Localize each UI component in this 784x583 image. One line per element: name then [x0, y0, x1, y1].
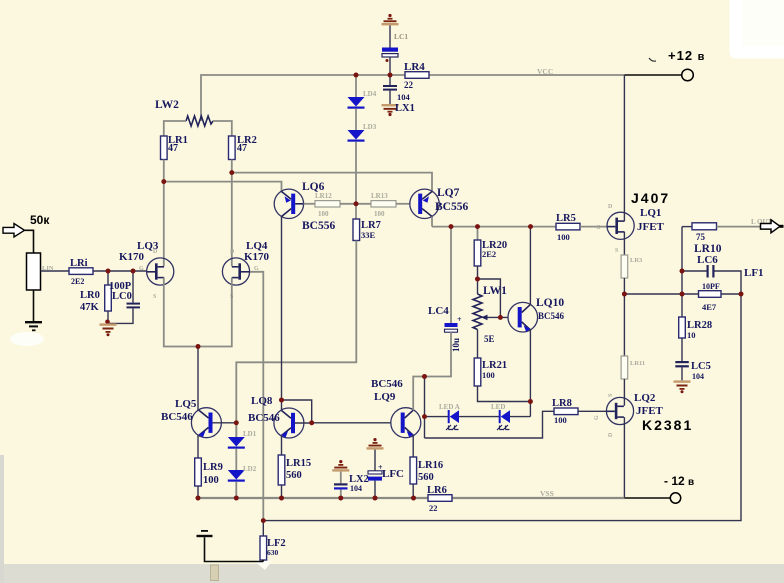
svg-text:LR8: LR8 [552, 398, 572, 409]
svg-text:LD3: LD3 [363, 123, 377, 131]
mid rail wire [432, 226, 556, 228]
node VSS LR9 [196, 496, 201, 501]
svg-text:75: 75 [696, 232, 706, 242]
svg-text:LR5: LR5 [556, 213, 576, 224]
wire VCC rail [201, 75, 405, 121]
svg-text:LR10: LR10 [694, 243, 722, 255]
svg-text:LR12: LR12 [315, 192, 332, 200]
wire pot to ground [33, 290, 35, 321]
svg-text:100: 100 [554, 415, 567, 425]
transistor LQ5 BC546 [191, 408, 221, 438]
potentiometer LW2 [186, 116, 213, 126]
svg-text:J407: J407 [631, 190, 670, 206]
svg-text:100: 100 [318, 210, 329, 218]
diode LD2 [235, 449, 237, 470]
transistor LQ9 BC546 [391, 408, 421, 438]
capacitor LC4 [450, 227, 452, 323]
svg-text:LR0: LR0 [80, 290, 100, 301]
svg-text:560: 560 [418, 472, 434, 483]
node at LR1 bottom branch [161, 179, 166, 184]
wire to LQ6 emitter [164, 182, 282, 192]
svg-text:+12 в: +12 в [668, 48, 705, 63]
node LQ10 collector tap [528, 224, 533, 229]
svg-text:33E: 33E [361, 230, 376, 240]
wire LR8 to LQ2 gate [578, 410, 607, 412]
resistor LR28 [681, 294, 683, 317]
terminal +12 [682, 69, 694, 81]
svg-text:VCC: VCC [537, 67, 553, 76]
svg-text:LR9: LR9 [203, 462, 223, 473]
JFET LQ4 K170 [222, 258, 249, 285]
node 682/294 [680, 292, 685, 297]
resistor LR5 [556, 223, 580, 230]
node feedback right [739, 292, 744, 297]
resistor LR11 [621, 356, 628, 379]
svg-text:LQ8: LQ8 [251, 395, 273, 407]
node LQ8 collector [279, 398, 284, 403]
capacitor LC5 [675, 361, 689, 363]
node LC0 tap [131, 269, 136, 274]
svg-text:LR13: LR13 [371, 192, 388, 200]
resistor LR6 [428, 495, 452, 502]
terminal -12 [670, 493, 680, 503]
wire LR3 to LR11 [623, 278, 625, 356]
svg-text:BC546: BC546 [161, 411, 193, 423]
svg-text:+: + [457, 315, 462, 324]
svg-text:104: 104 [692, 372, 704, 381]
wire LR2 down to LQ4 drain [231, 160, 233, 267]
resistor LRi [69, 268, 93, 275]
resistor LR3 [621, 255, 628, 278]
svg-text:LC6: LC6 [697, 254, 718, 266]
wire LED to emitter node [510, 416, 530, 418]
wire LR21 bottom to emitter node [478, 386, 531, 402]
white patch near input ground [10, 332, 44, 346]
LED A [448, 410, 450, 423]
wiper arrow LW1 [484, 316, 508, 318]
node VSS LR16 [411, 496, 416, 501]
capacitor LX2 with ground above [339, 460, 342, 463]
node VSS LD2 [234, 496, 239, 501]
svg-text:2E2: 2E2 [71, 277, 84, 286]
svg-text:LR11: LR11 [630, 360, 645, 367]
resistor LR2 [229, 136, 236, 160]
capacitor LC1 [382, 48, 398, 52]
svg-text:LR6: LR6 [427, 485, 447, 496]
VSS rail [197, 497, 428, 499]
wire 682 vertical to LR10 [681, 227, 683, 294]
svg-text:D: D [153, 249, 158, 255]
svg-text:LR4: LR4 [404, 61, 425, 73]
svg-text:100: 100 [557, 232, 570, 242]
node LC6 left [680, 269, 685, 274]
LED B [499, 410, 501, 423]
resistor LR20 [477, 227, 479, 240]
wire LQ5 emitter to LR9 [197, 435, 199, 458]
capacitor LX1 [389, 75, 391, 85]
svg-text:K170: K170 [244, 251, 270, 263]
diode LD1 [235, 423, 237, 437]
wire wiper to top [478, 279, 501, 317]
svg-text:JFET: JFET [636, 405, 664, 417]
svg-text:104: 104 [397, 92, 411, 102]
svg-text:LR16: LR16 [418, 460, 443, 471]
ground LC5 [674, 380, 691, 382]
wire output source node [624, 293, 682, 295]
wire LRi to LQ3 gate [93, 270, 147, 272]
node emitter/LR21 [528, 399, 533, 404]
node LQ8 base [309, 420, 314, 425]
svg-text:D: D [230, 249, 235, 255]
capacitor LFC with ground above [373, 438, 376, 441]
wire collector-base tie LQ8 [282, 400, 312, 423]
svg-text:10u: 10u [451, 338, 461, 352]
wire -12 terminal lead [624, 497, 670, 499]
svg-text:D: D [608, 204, 613, 210]
wire to LQ7 emitter [232, 173, 432, 192]
wire ground to LC1 [389, 25, 391, 47]
svg-text:LQ1: LQ1 [640, 207, 661, 219]
svg-text:2E2: 2E2 [482, 249, 496, 259]
svg-text:47: 47 [237, 143, 247, 154]
inductor/resistor LF1 4E7 [699, 291, 722, 298]
resistor LR9 [195, 458, 202, 486]
svg-text:LRi: LRi [70, 258, 88, 269]
wire between LEDs [459, 416, 500, 418]
node LC4 tap [449, 224, 454, 229]
svg-text:LQ9: LQ9 [374, 391, 396, 403]
svg-text:LFC: LFC [382, 468, 404, 480]
node VSS LFC [373, 496, 378, 501]
resistor LR12 [304, 203, 315, 205]
svg-text:LR15: LR15 [286, 458, 311, 469]
resistor LR8 [554, 408, 578, 415]
wire source loop to LQ5 collector [197, 347, 199, 411]
ground LR0/LC0 [105, 320, 110, 325]
node VSS LR15 [279, 496, 284, 501]
svg-text:LW2: LW2 [155, 99, 179, 111]
svg-text:100: 100 [203, 475, 219, 486]
wire bias node to LR8 [425, 411, 555, 438]
svg-text:LD2: LD2 [243, 465, 257, 473]
ground above LC1 [388, 14, 391, 17]
resistor LF2 [262, 521, 264, 536]
svg-text:LF1: LF1 [744, 267, 764, 279]
white patch top-right [741, 0, 784, 48]
capacitor LC6 [682, 270, 707, 272]
svg-text:VSS: VSS [540, 489, 554, 498]
wire LQ7 collector to mid rail [431, 217, 433, 227]
JFET LQ2 K2381 [606, 397, 633, 424]
svg-text:LC0: LC0 [112, 291, 132, 302]
ground LF2 [201, 530, 208, 532]
resistor LR1 [161, 136, 168, 160]
wire LQ1 drain to VCC [623, 75, 625, 221]
svg-text:K170: K170 [119, 251, 145, 263]
svg-text:BC546: BC546 [538, 311, 565, 321]
transistor LQ7 BC556 [410, 189, 439, 218]
resistor LR4 [405, 72, 429, 79]
wire bottom feedback run [263, 294, 741, 521]
wire LQ6 collector down to LQ8 [281, 217, 283, 411]
wire LC1 to rail [389, 57, 391, 75]
svg-text:LED A: LED A [439, 403, 460, 411]
svg-text:D: D [608, 432, 614, 437]
ground below LX1 [382, 104, 399, 106]
left gray edge strip [0, 455, 4, 583]
svg-text:G: G [139, 266, 144, 272]
wire LD3 to mid node [355, 142, 357, 204]
wire LQ2 drain down to VSS [623, 417, 625, 498]
wire corner to LR10 [682, 226, 692, 228]
svg-text:50к: 50к [30, 213, 50, 227]
svg-text:4E7: 4E7 [702, 302, 717, 312]
svg-text:5E: 5E [484, 334, 495, 344]
svg-text:BC546: BC546 [248, 412, 280, 424]
svg-text:LQ2: LQ2 [634, 392, 656, 404]
tan scrollbar element bottom [211, 565, 219, 581]
node VSS LX2 [338, 496, 343, 501]
svg-text:JFET: JFET [637, 221, 665, 233]
svg-text:22: 22 [404, 80, 414, 90]
diode LD3 [355, 109, 357, 130]
white patch below LF2 [254, 561, 272, 570]
svg-text:G: G [596, 225, 601, 231]
svg-text:BC556: BC556 [435, 201, 468, 213]
node feedback tap [622, 292, 627, 297]
potentiometer LW1 [473, 294, 482, 330]
svg-text:LC1: LC1 [394, 32, 408, 41]
svg-text:100: 100 [374, 210, 385, 218]
wire +12 terminal lead [624, 74, 682, 76]
resistor LR7 [355, 204, 357, 219]
wire bias vertical [424, 377, 426, 439]
svg-text:LED: LED [491, 403, 505, 411]
svg-text:LD4: LD4 [363, 90, 377, 98]
node LR20 tap [475, 224, 480, 229]
svg-text:47K: 47K [80, 302, 100, 313]
wire LQ8 base to LQ9 base [312, 422, 391, 424]
transistor LQ10 BC546 [508, 302, 538, 332]
transistor LQ6 BC556 [274, 189, 303, 218]
JFET LQ3 K170 [147, 258, 174, 285]
wire LR1 down to LQ3 drain [163, 160, 165, 267]
resistor LR21 [474, 358, 481, 386]
svg-text:LX1: LX1 [395, 103, 415, 114]
wire LQ9 collector up to bias node [413, 377, 424, 411]
resistor LR13 [371, 201, 396, 207]
svg-text:560: 560 [286, 470, 302, 481]
node LR0 tap [106, 269, 111, 274]
wire LW2 to LR1/LR2 [164, 121, 186, 136]
svg-text:10PF: 10PF [702, 282, 720, 291]
wire LQ1 source down [623, 232, 625, 255]
svg-text:G: G [594, 415, 600, 420]
svg-text:LW1: LW1 [483, 285, 507, 297]
resistor LR15 [278, 455, 285, 485]
wire pot wiper to LRi [41, 270, 70, 272]
resistor LR16 [410, 457, 417, 484]
node wiper link [475, 277, 480, 282]
diode LD4 [355, 75, 357, 97]
wire LQ3 source loop [164, 278, 232, 347]
wire LQ10 collector up [529, 227, 531, 305]
svg-text:BC546: BC546 [371, 378, 403, 390]
svg-text:LD1: LD1 [243, 430, 257, 438]
svg-text:47: 47 [168, 143, 178, 154]
wire LR5 to LQ1 gate [580, 226, 607, 228]
wire input to pot [25, 230, 34, 253]
node VCC/LD4 [354, 73, 359, 78]
junction dots top layer [106, 73, 744, 523]
wire LR7 down to diode chain [236, 241, 356, 438]
svg-text:LQ7: LQ7 [437, 187, 460, 199]
svg-text:K2381: K2381 [642, 417, 693, 433]
svg-text:LQ5: LQ5 [175, 398, 197, 410]
wire LR11 to LQ2 [623, 379, 625, 406]
node source loop [196, 344, 201, 349]
bottom gray band [0, 564, 784, 583]
node at LR2 bottom branch [229, 170, 234, 175]
node bias top [422, 374, 427, 379]
node VCC/LC1 [388, 73, 393, 78]
wire LQ9 emitter to LR16 [412, 435, 414, 457]
wire LED row [425, 416, 450, 418]
svg-text:BC556: BC556 [302, 220, 335, 232]
JFET LQ1 J407 [607, 212, 634, 239]
ground input pot [25, 321, 42, 323]
node feedback bottom [261, 518, 266, 523]
node LED anode [422, 414, 427, 419]
svg-text:104: 104 [350, 484, 362, 493]
input port arrow [3, 224, 25, 238]
svg-text:LC4: LC4 [428, 305, 449, 317]
node LQ5 base / diode chain [234, 420, 239, 425]
svg-text:- 12 в: - 12 в [664, 474, 694, 488]
resistor LR0 [107, 271, 109, 285]
potentiometer input 50k [27, 253, 41, 290]
capacitor LC0 [132, 271, 134, 303]
resistor LR10 [692, 223, 717, 230]
svg-text:100: 100 [482, 370, 495, 380]
svg-text:22: 22 [429, 503, 438, 513]
wire LQ10 emitter down [529, 330, 531, 417]
node LR12/LR13 [340, 203, 371, 205]
svg-text:630: 630 [267, 548, 279, 557]
wire LQ4 gate feedback line [250, 272, 263, 521]
svg-text:LR3: LR3 [630, 257, 643, 264]
wire LQ8 emitter to LR15 [281, 436, 283, 456]
transistor LQ8 BC546 [274, 408, 304, 438]
wire LR10 to output [717, 226, 761, 228]
svg-text:LQ10: LQ10 [536, 297, 564, 309]
svg-text:10: 10 [687, 330, 696, 340]
svg-text:LC5: LC5 [691, 361, 711, 372]
